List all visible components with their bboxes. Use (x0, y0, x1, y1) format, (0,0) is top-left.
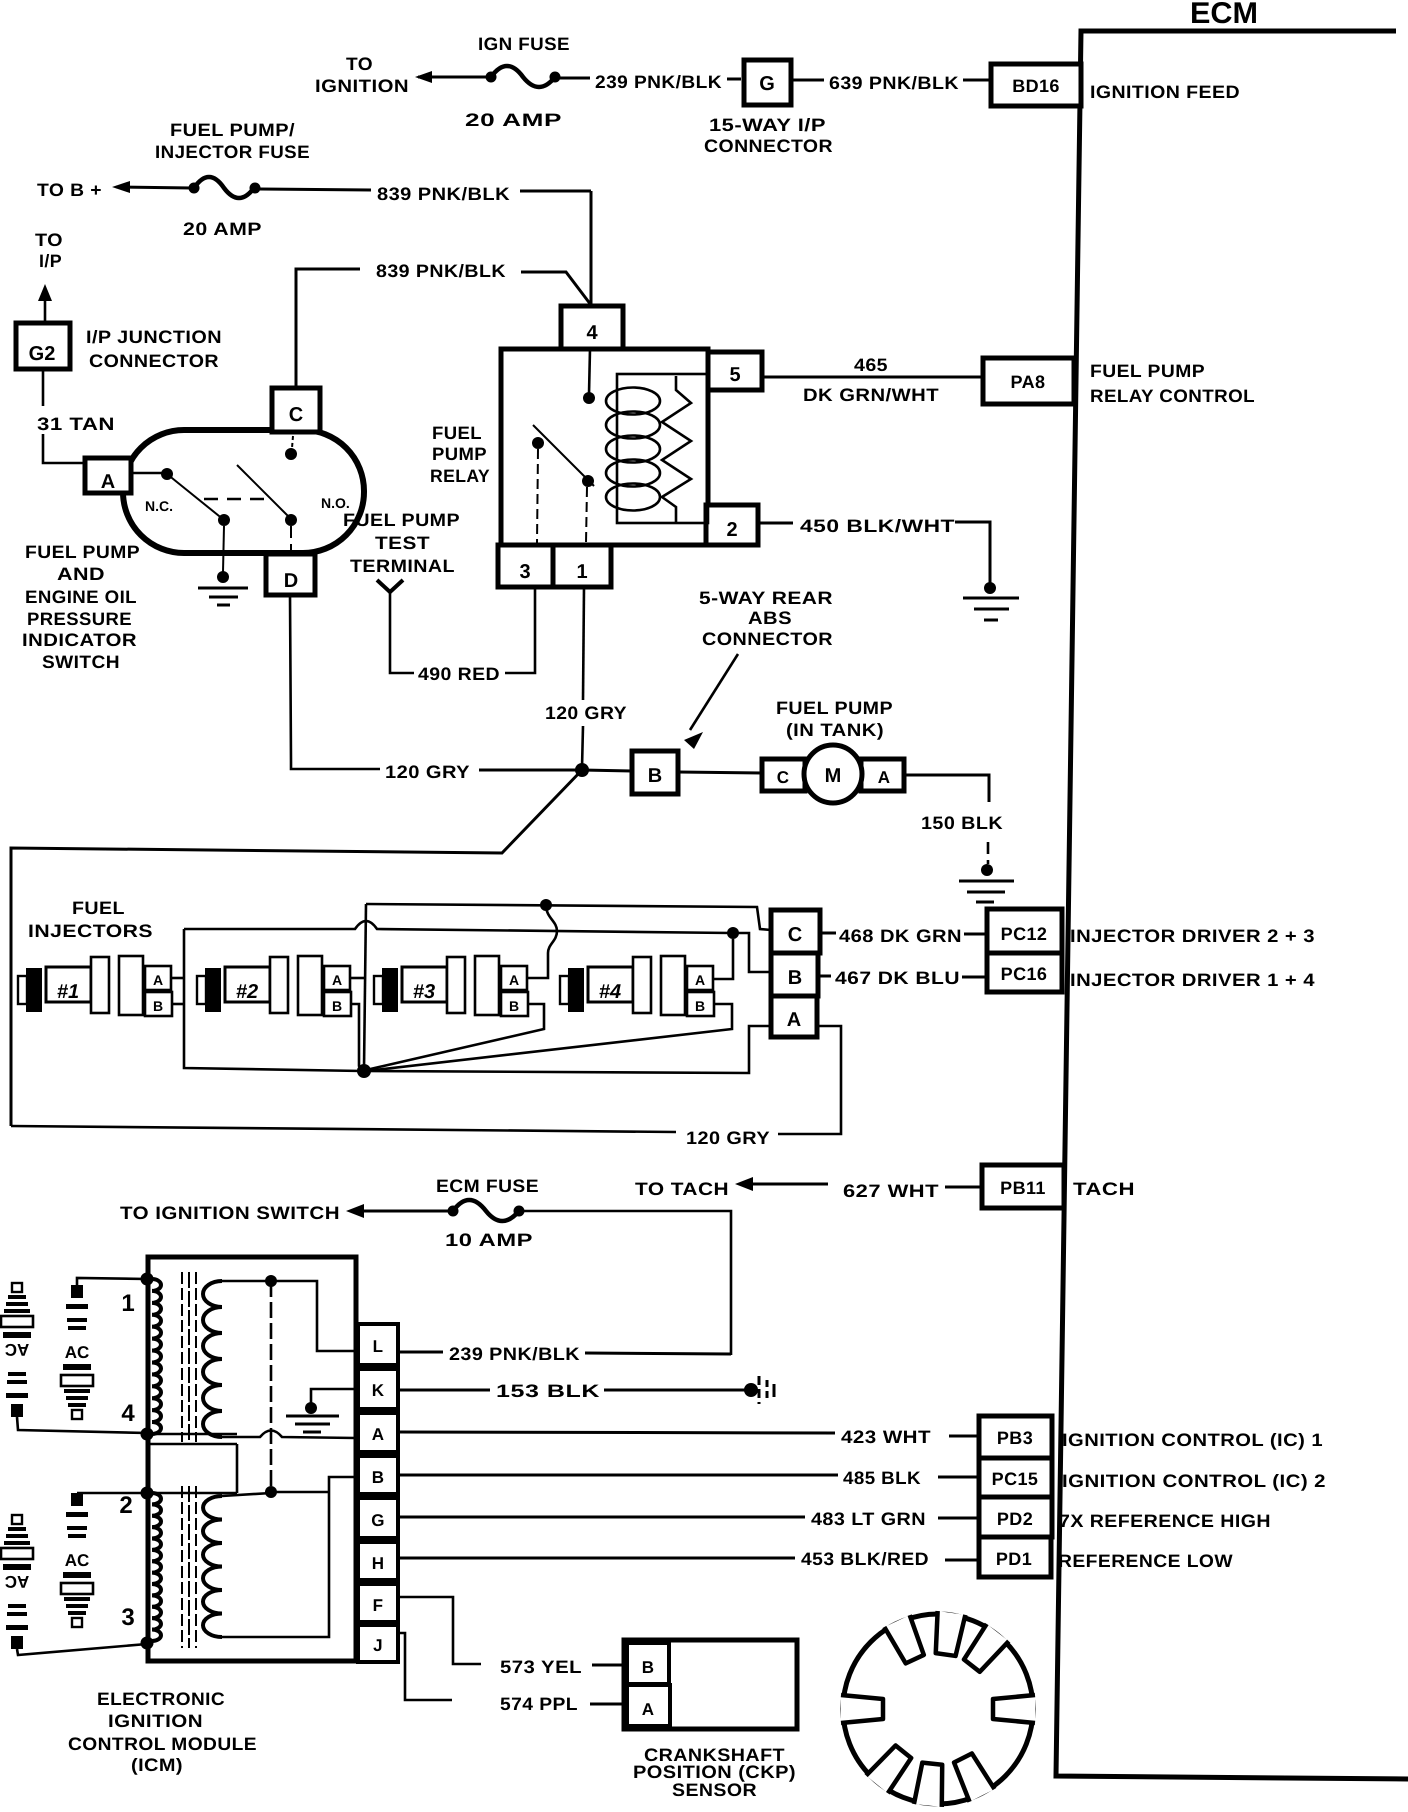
wire 453 BLK/RED to ECM pin PD1 (398, 1549, 979, 1569)
svg-text:IGN FUSE: IGN FUSE (478, 34, 570, 54)
injector #4 pin A wire (714, 939, 733, 979)
ECM pin PB11 (982, 1165, 1135, 1208)
wire 239 PNK/BLK to connector G (560, 72, 741, 92)
svg-text:PRESSURE: PRESSURE (27, 609, 132, 629)
ECM pin PD1 (979, 1537, 1233, 1577)
coil 2-3 core (182, 1486, 196, 1648)
ECM pin PC12 (987, 909, 1315, 953)
svg-text:A: A (372, 1425, 385, 1444)
injector harness connector B (771, 953, 818, 996)
connector G (15-way I/P) (704, 60, 833, 156)
IGN fuse F1 20 AMP (315, 34, 570, 130)
injector #1 wires (171, 978, 184, 1004)
svg-text:639 PNK/BLK: 639 PNK/BLK (829, 73, 959, 93)
crankshaft position (CKP) sensor (624, 1640, 797, 1729)
svg-text:1: 1 (121, 1290, 134, 1317)
relay coil resistor zigzag (662, 376, 691, 523)
svg-text:TO: TO (35, 230, 63, 250)
CKP pin B (627, 1643, 669, 1684)
ECM pin BD16 (991, 64, 1240, 106)
svg-text:F: F (373, 1596, 384, 1615)
coil 1 secondary top wire to pin L (222, 1275, 358, 1351)
svg-text:A: A (695, 972, 705, 988)
coil 2-3 primary winding (152, 1493, 161, 1641)
fuel pump relay K1 (430, 349, 708, 545)
svg-text:ECM FUSE: ECM FUSE (436, 1176, 539, 1196)
svg-text:FUEL PUMP: FUEL PUMP (25, 542, 140, 562)
svg-text:TACH: TACH (1073, 1179, 1135, 1199)
svg-text:#4: #4 (599, 981, 621, 1003)
svg-text:(ICM): (ICM) (131, 1755, 183, 1775)
svg-text:FUEL PUMP: FUEL PUMP (1090, 361, 1205, 381)
svg-text:INJECTOR DRIVER 2 + 3: INJECTOR DRIVER 2 + 3 (1070, 926, 1315, 946)
ICM pin F (358, 1584, 398, 1622)
svg-text:SWITCH: SWITCH (42, 652, 120, 672)
svg-text:PUMP: PUMP (432, 444, 487, 464)
svg-text:TO: TO (346, 54, 373, 74)
wire 423 WHT to ECM pin PB3 (398, 1427, 979, 1447)
svg-text:INJECTORS: INJECTORS (28, 921, 153, 941)
svg-text:FUEL: FUEL (72, 898, 125, 918)
svg-text:15-WAY I/P: 15-WAY I/P (709, 115, 826, 135)
svg-text:120 GRY: 120 GRY (385, 762, 470, 782)
injector harness connector A (771, 996, 817, 1037)
svg-text:I/P JUNCTION: I/P JUNCTION (86, 327, 222, 347)
svg-text:J: J (373, 1636, 383, 1655)
svg-text:D: D (284, 570, 298, 592)
svg-text:150 BLK: 150 BLK (921, 813, 1003, 833)
svg-text:423 WHT: 423 WHT (841, 1427, 931, 1447)
svg-text:B: B (788, 967, 802, 989)
injector #4 (560, 956, 714, 1016)
coil 1 primary bottom links (148, 1434, 237, 1493)
svg-text:N.C.: N.C. (145, 498, 173, 514)
ground for 153 BLK (744, 1376, 774, 1404)
svg-text:468 DK GRN: 468 DK GRN (839, 926, 962, 946)
wire from N.O. contact to pin D (290, 526, 292, 554)
svg-text:B: B (695, 998, 705, 1014)
svg-text:AND: AND (57, 564, 105, 584)
injector #4 pin B wire to junction (366, 1004, 732, 1071)
svg-text:PD2: PD2 (997, 1509, 1033, 1529)
wire 450 BLK/WHT from relay pin 2 (758, 516, 990, 583)
switch pin A (85, 458, 131, 493)
injector bus L1 (366, 899, 771, 930)
svg-text:#1: #1 (57, 981, 79, 1003)
svg-text:TERMINAL: TERMINAL (350, 556, 455, 576)
wire junction to connector A (364, 1026, 771, 1073)
spark plug 3 wire to coil 3 terminal (17, 1644, 147, 1655)
svg-text:A: A (787, 1009, 801, 1031)
injector #2 wires (350, 978, 366, 1070)
svg-text:3: 3 (519, 561, 530, 583)
svg-text:20 AMP: 20 AMP (465, 110, 562, 130)
relay pin 2 (706, 505, 758, 545)
relay internal wire from pin 4 (583, 349, 595, 404)
svg-text:5-WAY REAR: 5-WAY REAR (699, 588, 833, 608)
inner loop (left vertical and bottom) (184, 929, 362, 1071)
cylinder number 1 (121, 1290, 134, 1317)
relay coil windings (606, 388, 660, 511)
injector #3 pin B wire to junction (366, 1004, 544, 1070)
svg-text:153 BLK: 153 BLK (496, 1381, 600, 1401)
svg-text:450 BLK/WHT: 450 BLK/WHT (800, 516, 955, 536)
svg-text:FUEL PUMP: FUEL PUMP (776, 698, 893, 718)
wire 465 DK GRN/WHT to ECM pin PA8 (762, 355, 983, 405)
svg-text:RELAY CONTROL: RELAY CONTROL (1090, 386, 1255, 406)
svg-text:31 TAN: 31 TAN (37, 414, 115, 434)
injector bus L2 with hop (184, 921, 771, 972)
svg-text:B: B (648, 765, 662, 787)
svg-text:5: 5 (729, 364, 740, 386)
ground below N.C. contact (198, 526, 248, 605)
switch pin D (266, 554, 315, 595)
spark plug 2 (61, 1285, 93, 1419)
relay pin 4 (561, 306, 623, 349)
ECM pin PA8 (983, 358, 1255, 406)
svg-text:839 PNK/BLK: 839 PNK/BLK (377, 184, 510, 204)
coil 2 secondary top wire (222, 1486, 329, 1498)
svg-text:CONNECTOR: CONNECTOR (89, 351, 219, 371)
svg-text:4: 4 (586, 322, 598, 344)
ground for 150 BLK (959, 864, 1014, 902)
svg-text:AC: AC (5, 1340, 30, 1359)
svg-text:AC: AC (5, 1572, 30, 1591)
ICM pin H (358, 1542, 398, 1580)
ground for 450 BLK/WHT (963, 582, 1019, 620)
svg-text:C: C (289, 404, 303, 426)
bottom junction node (357, 1064, 371, 1078)
wire 239 PNK/BLK to ICM pin L (398, 1344, 731, 1364)
wire 574 PPL from ICM pin J to CKP pin A (398, 1633, 624, 1714)
svg-text:(IN TANK): (IN TANK) (786, 720, 884, 740)
svg-text:ELECTRONIC: ELECTRONIC (97, 1689, 225, 1709)
vertical wire V1 (L1 left end to bottom junction) (364, 904, 366, 1069)
7X reluctor wheel (841, 1611, 1035, 1807)
wire 153 BLK from ICM pin K to ground (398, 1381, 746, 1401)
svg-text:239 PNK/BLK: 239 PNK/BLK (449, 1344, 580, 1364)
wire 485 BLK to ECM pin PC15 (398, 1468, 979, 1488)
svg-text:BD16: BD16 (1012, 76, 1060, 96)
cylinder number 4 (121, 1400, 135, 1427)
ECM pin PC15 (979, 1458, 1326, 1497)
svg-text:N.O.: N.O. (321, 495, 350, 511)
wire 483 LT GRN to ECM pin PD2 (398, 1509, 979, 1529)
fuel pump M1 (in tank) (678, 698, 904, 803)
svg-text:K: K (372, 1381, 385, 1400)
svg-text:#2: #2 (236, 981, 258, 1003)
svg-text:A: A (642, 1700, 655, 1719)
FUEL PUMP / INJECTOR fuse F2 20 AMP (37, 120, 310, 239)
ICM junction dots on left edge (141, 1273, 154, 1650)
wire 573 YEL from ICM pin F to CKP pin B (398, 1597, 624, 1677)
spark plug 4 (61, 1493, 93, 1627)
svg-text:AC: AC (65, 1343, 90, 1362)
spark plug 2 wire to coil 1 (77, 1278, 147, 1285)
svg-text:INDICATOR: INDICATOR (22, 630, 137, 650)
svg-text:INJECTOR DRIVER 1 + 4: INJECTOR DRIVER 1 + 4 (1070, 970, 1315, 990)
connector B (5-way rear ABS) (582, 751, 678, 794)
svg-text:574 PPL: 574 PPL (500, 1694, 578, 1714)
relay pin 1 (553, 545, 611, 587)
coil 1-4 core (182, 1272, 196, 1442)
svg-text:CONTROL MODULE: CONTROL MODULE (68, 1734, 257, 1754)
svg-text:PB3: PB3 (997, 1428, 1033, 1448)
switch N.C. contact and arm (131, 468, 230, 526)
switch N.O. contact and arm (237, 436, 350, 526)
svg-text:IGNITION CONTROL (IC) 1: IGNITION CONTROL (IC) 1 (1062, 1430, 1323, 1450)
svg-text:G2: G2 (29, 343, 56, 365)
injector harness connector C (771, 910, 820, 953)
G2 I/P junction connector (16, 230, 222, 371)
CKP pin A (627, 1685, 670, 1726)
svg-text:RELAY: RELAY (430, 466, 490, 486)
svg-text:PB11: PB11 (1000, 1178, 1046, 1198)
switch pin C (272, 388, 320, 432)
junction node 120 GRY (575, 763, 589, 777)
svg-text:IGNITION: IGNITION (315, 76, 409, 96)
relay coil frame (617, 374, 708, 523)
svg-text:120 GRY: 120 GRY (686, 1128, 770, 1148)
svg-text:7X REFERENCE HIGH: 7X REFERENCE HIGH (1059, 1511, 1271, 1531)
svg-text:TEST: TEST (375, 533, 430, 553)
spark plug 1 (inverted) (1, 1283, 33, 1417)
svg-text:B: B (372, 1468, 385, 1487)
svg-text:IGNITION: IGNITION (108, 1711, 203, 1731)
svg-text:INJECTOR FUSE: INJECTOR FUSE (155, 142, 310, 162)
svg-text:490 RED: 490 RED (418, 664, 500, 684)
svg-text:485 BLK: 485 BLK (843, 1468, 921, 1488)
svg-text:DK GRN/WHT: DK GRN/WHT (803, 385, 939, 405)
svg-text:AC: AC (65, 1551, 90, 1570)
ECM fuse F3 10 AMP (120, 1176, 539, 1250)
fuel pump / oil pressure switch S1 (oval) (123, 430, 364, 553)
svg-text:CONNECTOR: CONNECTOR (704, 136, 833, 156)
svg-text:POSITION (CKP): POSITION (CKP) (633, 1762, 796, 1782)
spark plug 1 wire to coil 4 terminal (17, 1417, 147, 1433)
ICM internal ground (286, 1389, 356, 1432)
svg-text:2: 2 (119, 1492, 132, 1519)
svg-text:A: A (509, 972, 519, 988)
svg-text:467 DK BLU: 467 DK BLU (835, 968, 960, 988)
svg-text:PC12: PC12 (1001, 924, 1048, 944)
TO TACH arrow (635, 1177, 828, 1199)
svg-text:IGNITION FEED: IGNITION FEED (1090, 82, 1240, 102)
svg-text:#3: #3 (413, 981, 435, 1003)
wire 639 PNK/BLK to ECM pin BD16 (791, 73, 991, 93)
ICM pin K (358, 1369, 398, 1409)
svg-text:FUEL PUMP: FUEL PUMP (343, 510, 460, 530)
svg-text:B: B (642, 1658, 655, 1677)
dashed link between contacts (204, 498, 270, 501)
spark plug 3 (inverted) (1, 1515, 33, 1649)
wire 120 GRY from switch pin D to junction (290, 595, 580, 782)
svg-text:839 PNK/BLK: 839 PNK/BLK (376, 261, 506, 281)
wire 490 RED to relay pin 3 (390, 587, 535, 684)
injector #3 (374, 956, 528, 1016)
coil 1-4 primary winding (152, 1279, 161, 1434)
ICM pin A (358, 1413, 398, 1452)
svg-text:20 AMP: 20 AMP (183, 219, 262, 239)
relay pin 3 (498, 545, 553, 587)
ECM module boundary (1056, 0, 1408, 1779)
coil 2 secondary to pin B (222, 1477, 356, 1637)
ICM pin G (358, 1498, 398, 1538)
svg-text:573 YEL: 573 YEL (500, 1657, 582, 1677)
wire from ECM fuse down to 239 PNK/BLK (524, 1211, 731, 1355)
CKP sensor label (633, 1745, 796, 1800)
switch label (22, 542, 140, 672)
svg-text:FUEL: FUEL (432, 423, 482, 443)
svg-text:C: C (777, 768, 790, 787)
svg-text:A: A (101, 471, 115, 493)
svg-text:H: H (372, 1554, 385, 1573)
svg-text:G: G (371, 1511, 385, 1530)
cylinder number 3 (121, 1604, 134, 1631)
svg-text:120 GRY: 120 GRY (545, 703, 627, 723)
svg-text:A: A (153, 972, 163, 988)
bottom 120 GRY loop to connector A (11, 1026, 841, 1148)
wire to injector loop (diagonal + left margin loop) (11, 770, 582, 1126)
svg-text:A: A (878, 768, 891, 787)
svg-text:G: G (759, 73, 775, 95)
svg-text:PA8: PA8 (1011, 372, 1046, 392)
svg-text:10 AMP: 10 AMP (445, 1230, 533, 1250)
svg-text:C: C (788, 924, 802, 946)
electronic ignition control module (ICM) box (148, 1257, 356, 1661)
relay pin 5 (708, 352, 762, 390)
wire 150 BLK to ground (904, 775, 1003, 864)
svg-text:SENSOR: SENSOR (672, 1780, 757, 1800)
spark plug 4 wire to coil 2 terminal (77, 1492, 147, 1495)
svg-text:IGNITION CONTROL (IC) 2: IGNITION CONTROL (IC) 2 (1062, 1471, 1326, 1491)
svg-text:4: 4 (121, 1400, 135, 1427)
coil 1 secondary bottom wire to pin A (with hop) (222, 1431, 356, 1439)
wire from L1 dot down to injector 3 pin A (525, 905, 557, 978)
wire 467 DK BLU to ECM pin PC16 (818, 968, 987, 988)
wire 839 PNK/BLK row 2 to switch pin C (296, 261, 591, 388)
svg-text:2: 2 (726, 519, 737, 541)
svg-text:I/P: I/P (39, 251, 62, 271)
svg-text:239 PNK/BLK: 239 PNK/BLK (595, 72, 722, 92)
svg-text:CONNECTOR: CONNECTOR (702, 629, 833, 649)
secondary interconnect wire (270, 1281, 273, 1492)
svg-text:ECM: ECM (1190, 0, 1258, 30)
injector #2 (197, 956, 351, 1016)
coil 1-4 secondary winding (203, 1281, 222, 1437)
svg-text:REFERENCE LOW: REFERENCE LOW (1058, 1551, 1233, 1571)
svg-text:TO B +: TO B + (37, 180, 102, 200)
svg-text:B: B (153, 998, 163, 1014)
relay switch arm (532, 425, 594, 543)
svg-text:B: B (509, 998, 519, 1014)
svg-text:L: L (373, 1337, 384, 1356)
ECM pin PD2 (979, 1497, 1271, 1537)
svg-text:465: 465 (854, 355, 888, 375)
ICM label (68, 1689, 257, 1775)
svg-text:627 WHT: 627 WHT (843, 1181, 939, 1201)
fuel injectors label (28, 898, 153, 941)
svg-text:A: A (332, 972, 342, 988)
ICM pin L (358, 1324, 398, 1365)
svg-text:PD1: PD1 (996, 1549, 1032, 1569)
svg-text:453 BLK/RED: 453 BLK/RED (801, 1549, 929, 1569)
svg-text:ENGINE OIL: ENGINE OIL (25, 587, 137, 607)
svg-text:3: 3 (121, 1604, 134, 1631)
svg-text:TO TACH: TO TACH (635, 1179, 729, 1199)
svg-text:483 LT GRN: 483 LT GRN (811, 1509, 926, 1529)
svg-text:1: 1 (576, 561, 587, 583)
cylinder number 2 (119, 1492, 132, 1519)
wire 839 PNK/BLK row 1 to relay pin 4 (260, 184, 591, 306)
ICM pin J (358, 1625, 398, 1662)
wire 120 GRY from relay pin 1 to junction (545, 587, 627, 768)
ICM pin B (358, 1456, 398, 1494)
ECM pin PC16 (987, 953, 1315, 992)
svg-text:FUEL PUMP/: FUEL PUMP/ (170, 120, 295, 140)
svg-text:B: B (332, 998, 342, 1014)
svg-text:PC16: PC16 (1001, 964, 1048, 984)
svg-text:M: M (825, 765, 842, 787)
wire 31 TAN to switch pin A (37, 369, 115, 463)
coil 2-3 secondary winding (203, 1496, 222, 1637)
fuel pump test terminal (343, 510, 460, 664)
wire 468 DK GRN to ECM pin PC12 (820, 926, 987, 946)
ECM pin PB3 (979, 1416, 1323, 1458)
wire 627 WHT to ECM pin PB11 (843, 1181, 982, 1201)
injector #1 (18, 956, 172, 1016)
svg-text:ABS: ABS (748, 608, 792, 628)
svg-text:PC15: PC15 (992, 1469, 1039, 1489)
svg-text:TO IGNITION SWITCH: TO IGNITION SWITCH (120, 1203, 340, 1223)
5-way rear ABS connector label and arrow (684, 588, 833, 749)
